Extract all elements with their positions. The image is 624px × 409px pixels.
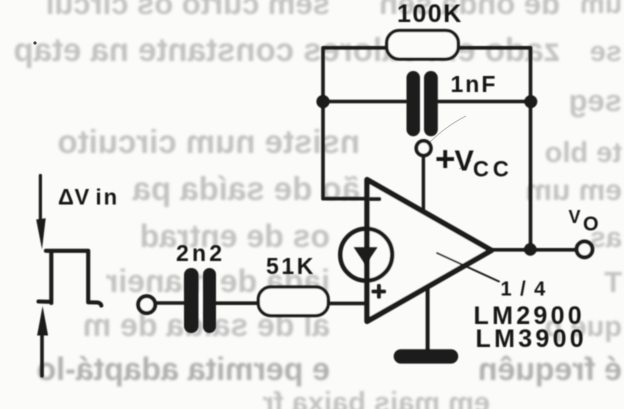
svg-text:V: V	[75, 185, 90, 210]
svg-text:1/4: 1/4	[501, 279, 554, 301]
svg-text:2n2: 2n2	[176, 240, 225, 266]
svg-text:em mais baixa fr: em mais baixa fr	[263, 387, 490, 409]
svg-text:100K: 100K	[397, 0, 463, 28]
svg-text:te blo: te blo	[545, 137, 622, 169]
svg-text:sem curto os circui: sem curto os circui	[46, 0, 330, 21]
svg-text:um: um	[580, 0, 622, 19]
svg-text:é frequên: é frequên	[478, 351, 622, 387]
svg-text:LM3900: LM3900	[476, 325, 588, 353]
svg-text:nsiste num circuito: nsiste num circuito	[57, 123, 360, 160]
svg-text:e permita adaptá-lo: e permita adaptá-lo	[37, 351, 330, 387]
svg-text:se: se	[590, 36, 622, 68]
svg-text:Δ: Δ	[58, 185, 74, 210]
svg-text:O: O	[583, 214, 599, 236]
svg-text:in: in	[96, 185, 120, 210]
svg-text:em um: em um	[525, 174, 622, 207]
svg-text:CC: CC	[473, 157, 513, 182]
svg-text:os de entrad: os de entrad	[140, 218, 330, 254]
svg-text:+: +	[435, 140, 455, 179]
svg-text:V: V	[569, 207, 581, 227]
svg-text:51K: 51K	[266, 253, 316, 279]
svg-text:1nF: 1nF	[451, 71, 498, 97]
svg-text:V: V	[455, 146, 475, 178]
svg-text:T: T	[604, 267, 622, 299]
svg-text:seg: seg	[569, 83, 622, 118]
svg-text:ão de saída pa: ão de saída pa	[132, 170, 360, 207]
